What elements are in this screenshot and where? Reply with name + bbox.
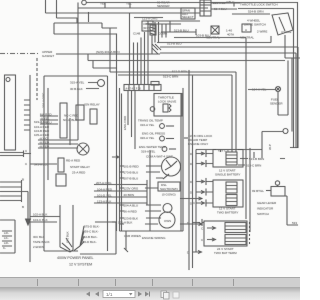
svg-text:1/1: 1/1 <box>106 292 113 297</box>
